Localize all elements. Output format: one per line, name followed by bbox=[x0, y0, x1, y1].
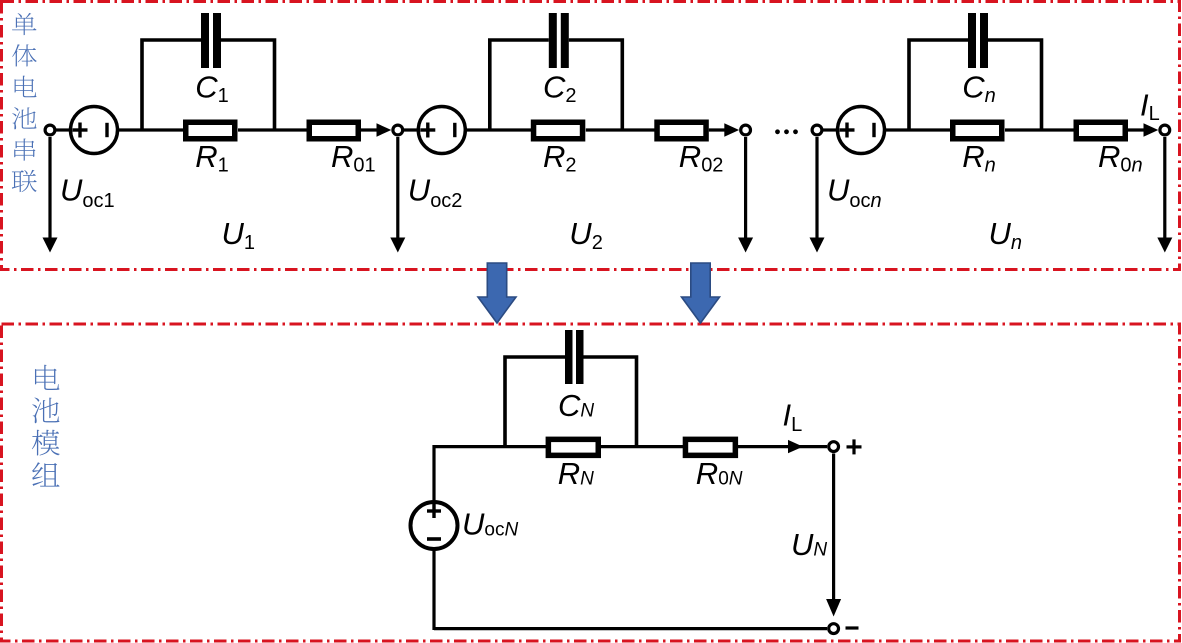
svg-text:C1: C1 bbox=[195, 70, 229, 107]
svg-text:CN: CN bbox=[558, 388, 594, 423]
svg-text:IL: IL bbox=[1140, 87, 1160, 125]
svg-text:R0N: R0N bbox=[696, 456, 743, 491]
svg-text:R2: R2 bbox=[543, 139, 577, 176]
svg-text:RN: RN bbox=[558, 456, 594, 491]
svg-text:C2: C2 bbox=[543, 70, 577, 107]
svg-text:UN: UN bbox=[791, 527, 827, 562]
svg-text:U1: U1 bbox=[222, 216, 256, 254]
svg-text:Rn: Rn bbox=[962, 139, 996, 176]
svg-text:R0n: R0n bbox=[1098, 139, 1143, 176]
svg-text:IL: IL bbox=[783, 398, 803, 437]
svg-text:UocN: UocN bbox=[462, 507, 518, 542]
svg-text:Cn: Cn bbox=[962, 70, 996, 107]
svg-text:Uoc2: Uoc2 bbox=[408, 173, 463, 212]
svg-text:R02: R02 bbox=[679, 139, 724, 176]
svg-text:U2: U2 bbox=[569, 216, 603, 254]
svg-text:Uoc1: Uoc1 bbox=[60, 173, 115, 212]
svg-text:Uocn: Uocn bbox=[827, 173, 882, 212]
svg-text:Un: Un bbox=[989, 216, 1023, 254]
svg-text:R01: R01 bbox=[331, 139, 376, 176]
svg-text:R1: R1 bbox=[195, 139, 229, 176]
